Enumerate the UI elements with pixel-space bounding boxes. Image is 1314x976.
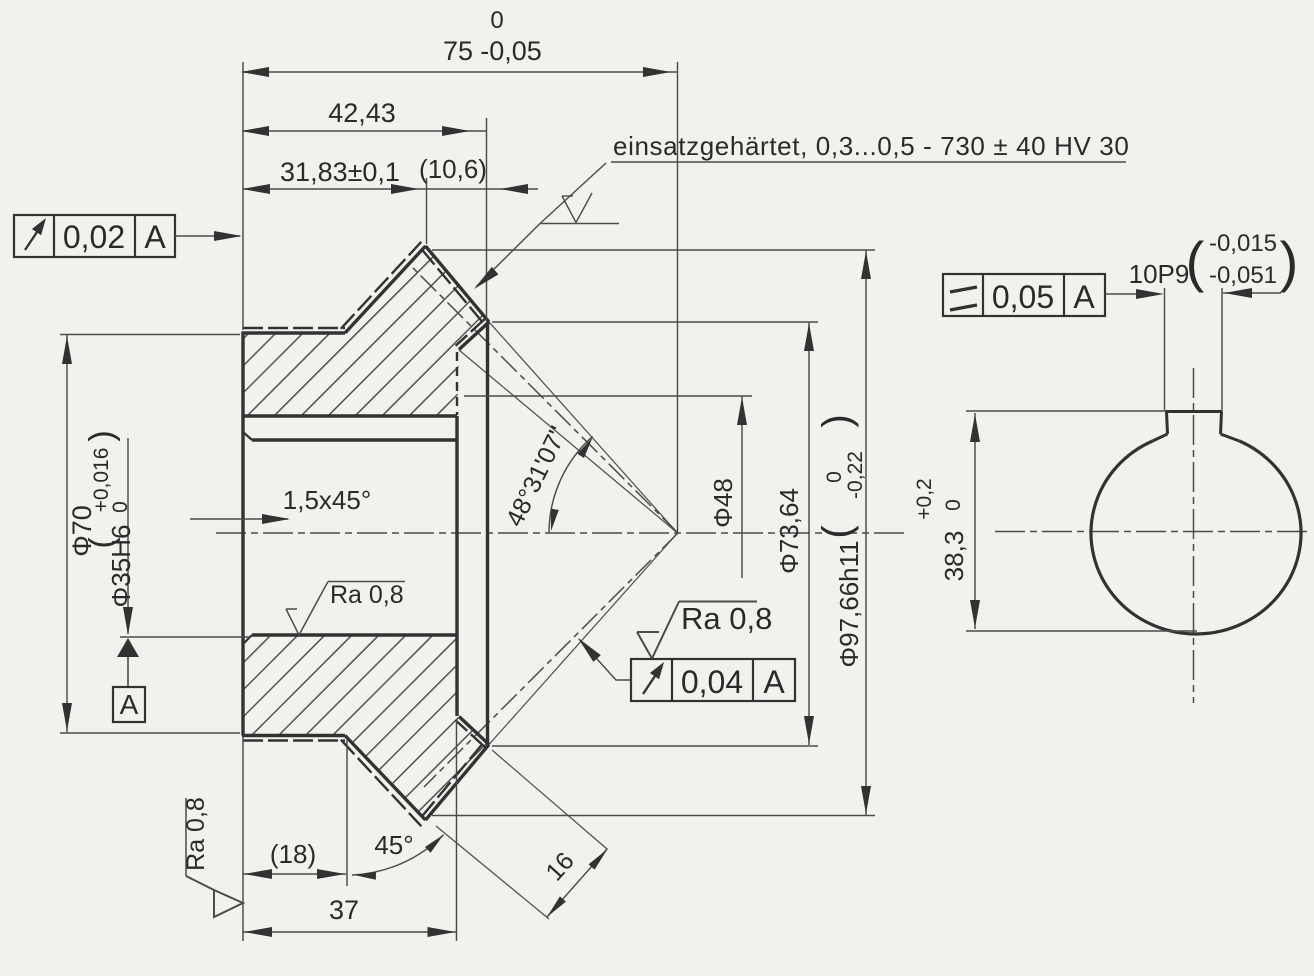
keyway right wall <box>1221 412 1222 435</box>
pitch cone line lower (dash-dot) <box>424 533 678 787</box>
keyway extension line left <box>1164 288 1166 410</box>
svg-text:Ra 0,8: Ra 0,8 <box>182 797 210 871</box>
keyway left chamfer <box>1153 434 1168 441</box>
svg-text:(: ( <box>1186 230 1205 293</box>
feature control frame runout 0.04 A <box>631 659 795 701</box>
svg-text:38,3: 38,3 <box>939 531 969 582</box>
dimension (10.6) <box>500 184 528 194</box>
feature control frame parallelism 0.05 A <box>943 274 1105 316</box>
keyway top edge <box>1166 410 1223 413</box>
angle dimension arc 48deg <box>549 436 593 533</box>
surface finish Ra 0.8 right <box>637 632 652 659</box>
svg-text:): ) <box>815 414 859 427</box>
svg-text:45°: 45° <box>374 830 413 860</box>
keyway extension line right <box>1221 288 1223 410</box>
extension line diam 73.64 bottom <box>492 745 818 747</box>
svg-text:37: 37 <box>329 895 359 925</box>
hub right face hidden segment <box>456 352 458 415</box>
svg-text:+0,2: +0,2 <box>913 478 936 519</box>
gear left face <box>241 332 244 736</box>
datum A triangle <box>117 638 139 657</box>
leader frame 0.05 to keyway <box>1105 293 1140 295</box>
hardening line along front cone bottom <box>341 740 422 827</box>
dimension 38.3 <box>974 413 976 629</box>
dimension 10P9 right side <box>1223 292 1281 294</box>
extension line diam 97.66 bottom <box>432 815 875 817</box>
svg-text:A: A <box>1073 279 1095 315</box>
extension line diam70 top <box>60 334 240 336</box>
leader einsatz <box>540 163 606 224</box>
right view horizontal centerline <box>995 531 1308 533</box>
tooth heel face top <box>459 322 489 350</box>
dimension line diam 70 <box>66 335 68 732</box>
svg-text:-0,05: -0,05 <box>480 36 542 66</box>
tip cone generator line upper <box>489 322 678 533</box>
root cone generator line upper <box>459 350 678 533</box>
svg-text:(10,6): (10,6) <box>419 154 487 184</box>
bore chamfer top <box>243 432 252 440</box>
extension line diam70 bottom <box>60 732 240 734</box>
svg-text:A: A <box>763 664 785 700</box>
surface finish Ra 0.8 left face <box>185 798 187 876</box>
svg-text:75: 75 <box>443 36 473 66</box>
bore bottom line <box>252 633 457 636</box>
gear axis centerline <box>216 532 905 534</box>
chamfer note 1.5x45 <box>190 518 288 520</box>
svg-text:42,43: 42,43 <box>328 98 396 128</box>
svg-text:Φ35H6: Φ35H6 <box>106 525 136 608</box>
hub OD bottom edge <box>242 734 345 737</box>
hardening line inside heel bottom <box>456 720 486 748</box>
svg-text:Ra 0,8: Ra 0,8 <box>330 581 404 609</box>
angle dimension 45deg <box>352 835 444 875</box>
hub OD top edge <box>242 331 345 334</box>
bore chamfer bottom <box>243 635 252 644</box>
svg-text:(18): (18) <box>270 839 316 869</box>
extension line x456.5 <box>456 719 458 941</box>
svg-text:Φ73,64: Φ73,64 <box>774 488 804 574</box>
bore top line <box>252 438 457 441</box>
svg-text:(: ( <box>83 537 121 549</box>
extension line x347 <box>346 740 348 886</box>
hardening line along hub bottom <box>243 739 345 741</box>
svg-text:0: 0 <box>823 471 846 483</box>
tip cone generator line lower <box>489 533 678 745</box>
hardening line inside tooth tip bottom <box>422 741 486 817</box>
extension line left face top <box>242 62 244 330</box>
extension line apex 31.83 <box>426 178 428 244</box>
svg-text:Φ48: Φ48 <box>708 478 738 528</box>
svg-text:einsatzgehärtet, 0,3...0,5 - 7: einsatzgehärtet, 0,3...0,5 - 730 ± 40 HV… <box>613 131 1129 161</box>
svg-text:1,5x45°: 1,5x45° <box>283 485 371 515</box>
front cone edge bottom <box>345 736 426 821</box>
svg-text:): ) <box>83 430 121 441</box>
dimension diam 97.66h11 <box>865 250 867 815</box>
keyway right chamfer <box>1221 434 1240 441</box>
svg-text:0,05: 0,05 <box>992 279 1054 315</box>
right view vertical centerline <box>1193 368 1195 703</box>
dimension line 31.83 <box>243 188 538 190</box>
svg-text:0: 0 <box>942 499 965 511</box>
front cone edge top <box>345 246 426 333</box>
leader from frame 0.02 <box>175 235 240 237</box>
extension line heel 42.43 <box>486 118 488 321</box>
hardening line inside tooth tip top <box>422 249 486 325</box>
section hatching upper half <box>0 140 1279 900</box>
svg-text:(: ( <box>815 525 859 539</box>
dimension 16 (oblique) <box>492 750 607 849</box>
svg-text:-0,051: -0,051 <box>1209 262 1277 289</box>
surface check symbol on leader <box>562 196 576 223</box>
keyway left wall <box>1167 412 1168 435</box>
svg-text:0,04: 0,04 <box>681 664 743 700</box>
datum A box <box>113 687 145 722</box>
dimension line 42.43 <box>243 130 487 132</box>
svg-text:0: 0 <box>490 7 503 34</box>
dimension (18) <box>243 873 346 875</box>
dimension diam 48 <box>741 396 743 578</box>
extension line cone apex 75 <box>677 62 679 533</box>
hub right face <box>455 416 458 716</box>
shaft bore circle with keyway <box>1091 441 1301 634</box>
svg-text:-0,22: -0,22 <box>844 451 867 499</box>
svg-text:-0,015: -0,015 <box>1209 230 1277 257</box>
svg-text:0,02: 0,02 <box>63 219 125 255</box>
svg-text:Ra 0,8: Ra 0,8 <box>681 601 772 636</box>
svg-text:A: A <box>144 219 166 255</box>
dimension diam 73.64 <box>808 322 810 745</box>
extension line keyway top <box>966 410 1166 412</box>
svg-text:): ) <box>1280 230 1299 293</box>
hardening line inside heel top <box>456 318 486 346</box>
tooth heel face bottom <box>459 717 489 745</box>
extension line diam 48 <box>464 395 752 397</box>
extension line diam 97.66 top <box>432 249 875 251</box>
hardening line along front cone top <box>341 242 422 329</box>
tooth tip edge bottom <box>426 745 490 821</box>
leader line diam 35H6 <box>127 438 129 634</box>
extension line left face bottom <box>242 737 244 941</box>
hardening line along hub top <box>243 327 345 329</box>
svg-text:31,83±0,1: 31,83±0,1 <box>280 157 400 187</box>
svg-text:10P9: 10P9 <box>1129 259 1190 289</box>
gear back face <box>486 322 489 744</box>
section hatching lower half <box>0 140 1279 900</box>
svg-text:A: A <box>120 689 139 720</box>
feature control frame runout 0.02 A <box>14 215 175 257</box>
dimension line 75 <box>243 71 678 73</box>
svg-text:Φ97,66h11: Φ97,66h11 <box>834 540 864 667</box>
extension line bore bottom datum <box>120 636 250 638</box>
keyway bottom line <box>243 414 457 417</box>
dimension 37 <box>243 931 457 933</box>
surface finish Ra 0.8 bore <box>286 609 299 635</box>
tooth tip edge top <box>426 246 490 322</box>
svg-text:0: 0 <box>109 501 132 513</box>
pitch cone line upper (dash-dot) <box>412 267 678 533</box>
extension line diam 73.64 top <box>492 321 818 323</box>
leader from frame 0.04 <box>579 639 631 680</box>
extension line circle bottom <box>966 630 1197 632</box>
